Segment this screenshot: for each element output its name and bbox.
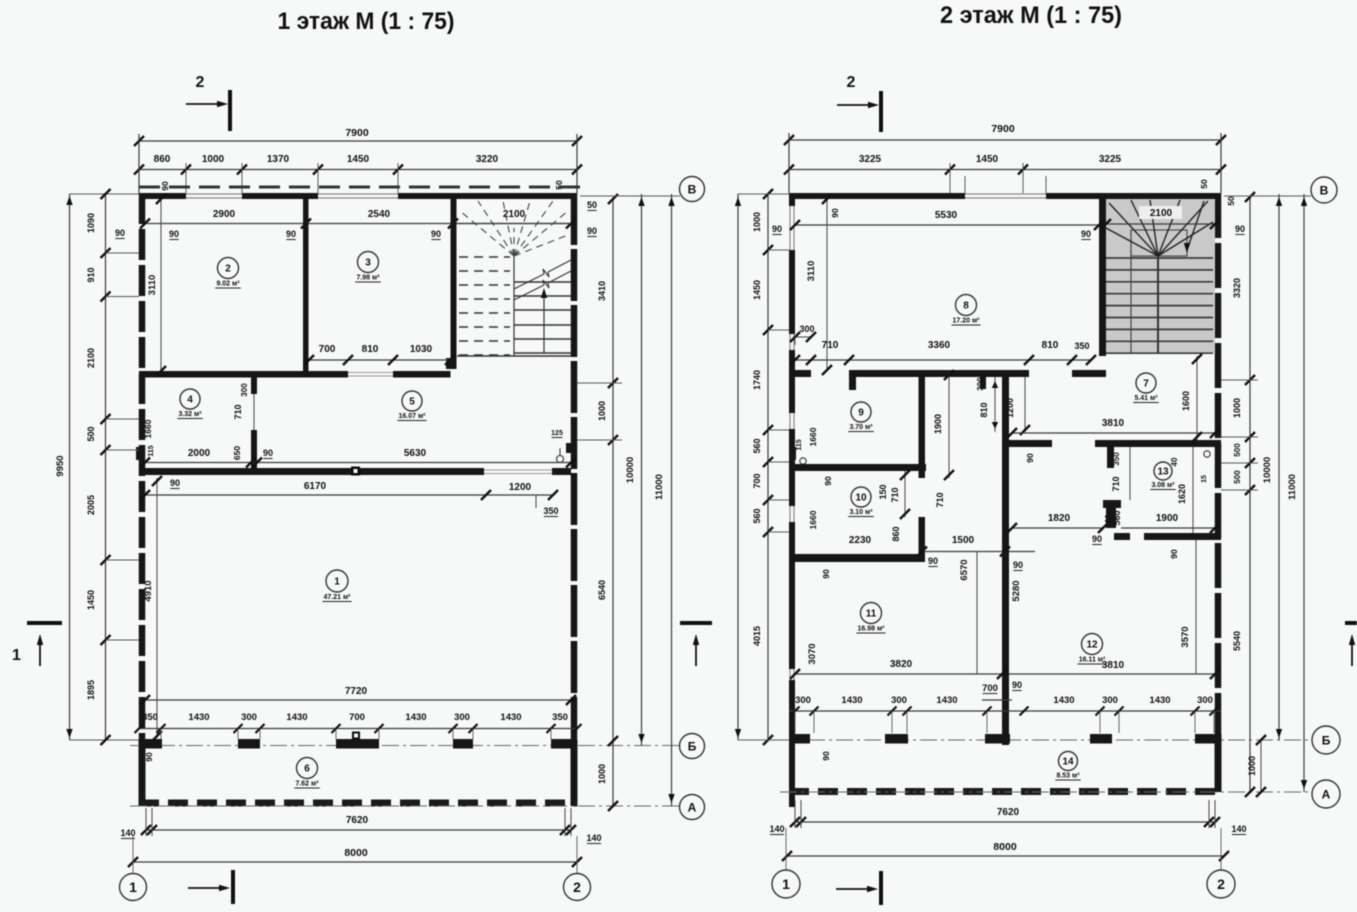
svg-text:710: 710 <box>890 487 900 502</box>
svg-text:3570: 3570 <box>1180 626 1191 647</box>
svg-text:5540: 5540 <box>1232 631 1242 651</box>
bottom door dim row <box>139 728 577 730</box>
dim 5530 room8 <box>795 224 1099 226</box>
svg-text:50: 50 <box>587 200 597 210</box>
svg-text:810: 810 <box>362 344 379 355</box>
svg-text:11000: 11000 <box>1287 474 1298 500</box>
dim 8000 bottom right plan <box>787 855 1224 857</box>
svg-text:300: 300 <box>240 383 249 397</box>
svg-text:1430: 1430 <box>1053 695 1074 706</box>
svg-text:1000: 1000 <box>202 154 225 165</box>
svg-text:1740: 1740 <box>752 370 762 390</box>
svg-text:810: 810 <box>1042 340 1059 351</box>
left overall dim 9950 <box>69 194 71 740</box>
left dim chain 1090 910 2100 500 2005 1450 1895 <box>105 194 107 740</box>
svg-text:500: 500 <box>1233 443 1242 457</box>
svg-text:115: 115 <box>796 439 803 450</box>
right dim 11000 <box>671 194 673 806</box>
room 3 label <box>358 252 379 273</box>
svg-text:3.08 м²: 3.08 м² <box>1151 482 1175 489</box>
svg-text:90: 90 <box>1025 453 1035 463</box>
svg-text:1820: 1820 <box>1048 513 1071 524</box>
room 5 label <box>402 391 422 411</box>
svg-text:7.98 м²: 7.98 м² <box>356 275 380 282</box>
svg-text:300: 300 <box>976 377 985 391</box>
dim 1820 and 1900 <box>1012 527 1103 529</box>
pier marker square <box>352 732 360 740</box>
dim 7720 <box>145 699 571 701</box>
svg-text:Б: Б <box>688 739 697 753</box>
stairwell gray fill <box>1106 199 1215 353</box>
svg-text:6170: 6170 <box>304 481 327 492</box>
extension lines top dims <box>138 134 140 193</box>
svg-text:90: 90 <box>928 556 938 566</box>
svg-text:1030: 1030 <box>410 344 433 355</box>
svg-text:Б: Б <box>1322 733 1331 747</box>
svg-text:16.98 м²: 16.98 м² <box>858 626 886 633</box>
svg-text:6570: 6570 <box>959 559 970 580</box>
svg-text:90: 90 <box>431 229 441 239</box>
svg-text:1450: 1450 <box>86 590 96 610</box>
svg-text:10000: 10000 <box>1262 457 1273 483</box>
svg-text:3810: 3810 <box>1102 660 1125 671</box>
svg-text:700: 700 <box>752 473 762 488</box>
svg-text:700: 700 <box>349 712 365 723</box>
svg-text:1: 1 <box>782 876 790 892</box>
svg-text:860: 860 <box>891 526 901 541</box>
axis circle B right plan <box>1312 726 1340 754</box>
svg-text:В: В <box>1320 183 1329 197</box>
svg-text:1000: 1000 <box>1247 756 1257 776</box>
dim 7620 bottom right plan <box>795 821 1215 823</box>
wall between room2 and room3 <box>303 199 309 378</box>
svg-text:2: 2 <box>573 879 581 895</box>
room 9 label <box>851 402 871 422</box>
svg-text:5280: 5280 <box>1011 580 1022 601</box>
room8 bottom wall segments <box>795 370 811 377</box>
svg-text:4910: 4910 <box>143 580 154 601</box>
svg-text:125: 125 <box>551 430 563 437</box>
svg-text:90: 90 <box>115 228 125 238</box>
svg-text:3110: 3110 <box>806 261 817 282</box>
svg-text:3.32 м²: 3.32 м² <box>178 411 202 418</box>
svg-text:9.02 м²: 9.02 м² <box>216 281 240 288</box>
dim 3810 room12 <box>1009 673 1215 675</box>
dim 1600 rotated room7 <box>1196 356 1198 440</box>
svg-text:500: 500 <box>86 426 96 441</box>
svg-text:2100: 2100 <box>1150 208 1173 219</box>
svg-text:140: 140 <box>586 833 601 843</box>
axis circle A left plan <box>680 795 705 820</box>
room10 right wall <box>919 471 926 478</box>
svg-text:50: 50 <box>1199 179 1209 189</box>
main interior wall horizontal <box>139 468 484 475</box>
dim 700 810 1030 door room3 <box>309 359 450 361</box>
svg-text:2900: 2900 <box>213 209 236 220</box>
room9 right wall <box>919 377 926 464</box>
svg-text:16.07 м²: 16.07 м² <box>399 413 427 420</box>
svg-text:300: 300 <box>799 324 814 334</box>
room 6 veranda label <box>297 758 318 779</box>
svg-text:300: 300 <box>891 695 907 706</box>
svg-text:1430: 1430 <box>841 695 862 706</box>
svg-text:1200: 1200 <box>509 482 532 493</box>
room 14 label <box>1059 752 1078 771</box>
axis circle V left plan <box>680 177 705 202</box>
dim 3110 room2 left <box>160 199 162 371</box>
room 13 walls <box>1107 447 1114 468</box>
svg-text:115: 115 <box>148 445 155 456</box>
svg-text:710: 710 <box>1111 476 1121 491</box>
svg-text:7720: 7720 <box>345 686 368 697</box>
svg-text:710: 710 <box>822 340 839 351</box>
svg-text:7: 7 <box>1143 379 1149 390</box>
svg-text:47.21 м²: 47.21 м² <box>324 594 352 601</box>
dim 3110 room8 left <box>826 199 828 370</box>
svg-text:90: 90 <box>1235 224 1245 234</box>
svg-text:1000: 1000 <box>1232 398 1242 418</box>
svg-text:860: 860 <box>154 154 171 165</box>
svg-text:3320: 3320 <box>1232 278 1242 298</box>
interior dim line 2900 2540 2100 <box>145 223 571 225</box>
svg-text:1430: 1430 <box>405 712 426 723</box>
section mark 2 bottom right plan <box>836 888 872 890</box>
svg-text:90: 90 <box>830 208 840 218</box>
wall between room3 and stairwell <box>451 199 457 362</box>
svg-text:1600: 1600 <box>1181 391 1191 411</box>
svg-text:560: 560 <box>752 438 762 453</box>
svg-text:17.20 м²: 17.20 м² <box>953 318 981 325</box>
windows in left wall <box>789 206 791 250</box>
dim 2100 stairs right plan <box>1139 206 1182 219</box>
dim 3570 rotated room12 <box>1195 540 1197 674</box>
outer right wall <box>571 193 578 740</box>
svg-text:А: А <box>1322 787 1331 801</box>
svg-text:В: В <box>688 182 697 196</box>
svg-text:8: 8 <box>963 301 969 312</box>
svg-text:40: 40 <box>1170 457 1179 466</box>
svg-text:13: 13 <box>1157 467 1169 478</box>
svg-text:650: 650 <box>232 446 242 460</box>
svg-text:3225: 3225 <box>1099 154 1122 165</box>
window in top wall 1000 <box>186 193 242 195</box>
room 10 label <box>851 487 871 507</box>
svg-text:9: 9 <box>858 408 864 419</box>
svg-text:10: 10 <box>855 493 867 504</box>
section mark 1 right of left plan <box>680 621 712 625</box>
svg-text:1900: 1900 <box>933 414 943 434</box>
svg-text:7.62 м²: 7.62 м² <box>295 781 319 788</box>
svg-text:5: 5 <box>409 397 415 408</box>
svg-text:1000: 1000 <box>597 764 607 784</box>
svg-text:1500: 1500 <box>952 535 975 546</box>
right chain right plan 3320 1000 500 500 5540 <box>1249 197 1251 792</box>
dim 810 rotated <box>994 377 996 432</box>
stair steps right plan <box>1106 257 1213 259</box>
stair break lines <box>514 274 544 289</box>
svg-text:2005: 2005 <box>86 495 96 515</box>
stair inner vertical line <box>1130 230 1132 353</box>
svg-text:1450: 1450 <box>752 280 762 300</box>
svg-text:1430: 1430 <box>500 712 521 723</box>
svg-text:350: 350 <box>543 506 558 516</box>
svg-text:11000: 11000 <box>654 474 665 500</box>
svg-text:90: 90 <box>263 448 273 458</box>
svg-text:1450: 1450 <box>347 154 370 165</box>
wall pier between 1820 1900 <box>1106 508 1116 528</box>
svg-text:3220: 3220 <box>476 154 499 165</box>
svg-text:3225: 3225 <box>859 154 882 165</box>
svg-text:2000: 2000 <box>188 448 211 459</box>
svg-text:1900: 1900 <box>1156 513 1179 524</box>
svg-text:300: 300 <box>1102 695 1118 706</box>
svg-text:5.41 м²: 5.41 м² <box>1134 395 1158 402</box>
room 4 label <box>180 389 200 409</box>
svg-text:1430: 1430 <box>1149 695 1170 706</box>
room 11 label <box>861 603 882 624</box>
svg-text:7900: 7900 <box>991 123 1015 135</box>
svg-text:90: 90 <box>144 752 154 762</box>
svg-text:3.10 м²: 3.10 м² <box>849 509 873 516</box>
wall stubs corridor <box>980 377 986 389</box>
svg-text:6: 6 <box>304 764 310 775</box>
svg-text:7900: 7900 <box>345 127 369 139</box>
dim row 710 3360 810 350 room8 bottom <box>795 359 1091 361</box>
axis circle B left plan <box>680 734 705 759</box>
svg-text:350: 350 <box>142 712 158 723</box>
svg-text:9950: 9950 <box>55 455 66 476</box>
stair down arrow <box>1188 201 1204 247</box>
svg-text:1000: 1000 <box>752 212 762 232</box>
svg-text:4: 4 <box>187 395 193 406</box>
right chain 3410 1000 6540 1000 <box>612 199 614 806</box>
dim 1620 rotated room13 <box>1192 447 1194 533</box>
dim 300 bracket left <box>795 336 811 338</box>
outer top wall right plan <box>789 193 965 199</box>
svg-text:300: 300 <box>1197 695 1213 706</box>
svg-text:300: 300 <box>454 712 470 723</box>
room 8 label <box>956 295 977 316</box>
svg-text:1: 1 <box>12 647 21 664</box>
svg-text:2230: 2230 <box>849 535 872 546</box>
svg-text:3820: 3820 <box>890 659 913 670</box>
svg-text:2540: 2540 <box>368 209 391 220</box>
axis circle A right plan <box>1312 780 1340 808</box>
dim 4910 rotated <box>156 478 158 738</box>
dim row 3225 1450 3225 <box>789 169 1221 171</box>
stairwell left wall <box>1099 199 1106 356</box>
left chain right plan 1000 1450 1740 560 700 560 4015 <box>737 194 739 740</box>
dim 2100 stairs <box>457 223 571 225</box>
room10 bottom wall <box>789 554 922 562</box>
svg-text:1090: 1090 <box>86 213 96 233</box>
svg-text:90: 90 <box>1012 680 1022 690</box>
door sill lines main wall <box>484 469 552 471</box>
wall stub between room4 room5 upper <box>251 378 257 395</box>
dim 7900 top <box>139 140 577 142</box>
svg-text:90: 90 <box>821 751 831 761</box>
door pier left wall right plan <box>789 447 796 460</box>
svg-text:7620: 7620 <box>346 815 369 826</box>
axis A dash-dot right plan <box>780 791 1312 793</box>
svg-text:1: 1 <box>334 577 340 588</box>
svg-text:6540: 6540 <box>597 580 607 600</box>
bottom wall piers <box>139 739 162 749</box>
svg-text:3.70 м²: 3.70 м² <box>849 424 873 431</box>
bottom piers right plan <box>789 734 810 744</box>
door sill lines room3 <box>348 372 393 374</box>
svg-text:2: 2 <box>196 74 205 91</box>
svg-text:910: 910 <box>86 267 96 282</box>
svg-text:1370: 1370 <box>267 154 290 165</box>
svg-text:810: 810 <box>979 402 989 417</box>
svg-text:15: 15 <box>1201 475 1208 483</box>
dim 10000 right plan <box>1278 194 1280 740</box>
dim 1200 rotated <box>1024 377 1026 432</box>
svg-text:300: 300 <box>241 712 257 723</box>
svg-text:10000: 10000 <box>625 457 636 483</box>
svg-text:8.53 м²: 8.53 м² <box>1056 773 1080 780</box>
svg-text:1660: 1660 <box>143 419 153 438</box>
svg-text:1450: 1450 <box>976 154 999 165</box>
room 12 label <box>1082 634 1103 655</box>
svg-text:3110: 3110 <box>147 275 158 296</box>
svg-text:3070: 3070 <box>807 643 818 664</box>
svg-text:1430: 1430 <box>286 712 307 723</box>
wall stub below room8 left <box>849 370 856 390</box>
svg-text:8000: 8000 <box>993 841 1017 853</box>
svg-text:700: 700 <box>982 683 998 694</box>
svg-text:90: 90 <box>1169 549 1179 559</box>
bottom door dim row right plan <box>789 710 1221 712</box>
svg-text:2100: 2100 <box>86 348 96 368</box>
dim 11000 right plan <box>1303 194 1305 792</box>
axis circle 1 right plan <box>785 828 787 870</box>
room 1 label <box>326 570 348 592</box>
room 2 label <box>218 258 239 279</box>
outer left wall right plan with windows <box>789 193 795 206</box>
room 7 label <box>1136 373 1156 393</box>
stair up arrow <box>543 292 545 353</box>
svg-text:90: 90 <box>160 181 170 191</box>
dim 700 90 bottom center <box>982 699 1012 701</box>
svg-text:11: 11 <box>866 609 877 620</box>
room 13 label <box>1154 462 1172 480</box>
svg-text:4015: 4015 <box>752 626 762 646</box>
svg-text:5530: 5530 <box>935 210 958 221</box>
veranda dashed bottom wall right plan <box>789 788 1221 795</box>
svg-text:1620: 1620 <box>1177 484 1187 504</box>
outer top wall with windows <box>139 193 186 199</box>
svg-text:500: 500 <box>1233 470 1242 484</box>
dim row 860 1000 1370 1450 3220 <box>139 169 577 171</box>
svg-text:710: 710 <box>935 492 945 507</box>
svg-text:90: 90 <box>286 229 296 239</box>
svg-text:90: 90 <box>1013 560 1023 570</box>
dim 710 rotated room13 <box>1129 447 1131 500</box>
svg-text:14: 14 <box>1062 757 1074 768</box>
dim 6570 rotated corridor <box>976 552 978 675</box>
dim 8000 bottom <box>133 861 577 863</box>
svg-text:1430: 1430 <box>188 712 209 723</box>
axis circle 2 right plan <box>1220 828 1222 870</box>
svg-text:1: 1 <box>129 879 137 895</box>
svg-text:1000: 1000 <box>597 401 607 421</box>
svg-text:1660: 1660 <box>808 427 818 446</box>
svg-text:А: А <box>688 800 697 814</box>
axis B dash-dot right plan <box>780 739 1312 741</box>
veranda dashed bottom wall <box>139 800 577 807</box>
dim 3820 room11 <box>795 673 1002 675</box>
bottom wall of rooms 2-3 with door <box>139 371 348 378</box>
flue square on main wall <box>351 467 360 476</box>
axis circle V right plan <box>1311 177 1337 203</box>
svg-text:50: 50 <box>1226 196 1236 206</box>
outer right wall right plan <box>1215 193 1222 740</box>
svg-text:1895: 1895 <box>86 680 96 700</box>
window top wall 1450 <box>965 193 1046 195</box>
svg-text:350: 350 <box>1074 341 1089 351</box>
room7 top wall segments <box>1009 440 1052 447</box>
svg-text:90: 90 <box>821 569 831 579</box>
svg-text:2 этаж М (1 : 75): 2 этаж М (1 : 75) <box>940 2 1122 29</box>
svg-text:2: 2 <box>225 264 231 275</box>
svg-text:560: 560 <box>1104 514 1113 528</box>
svg-text:140: 140 <box>769 824 784 834</box>
dim 3810 room7 <box>1012 432 1215 434</box>
axis circle 2 left plan <box>576 836 578 873</box>
svg-text:90: 90 <box>170 478 180 488</box>
window in top wall 1450 <box>318 193 398 195</box>
svg-text:5630: 5630 <box>404 448 427 459</box>
dim 1000 B to A right plan <box>1260 740 1262 792</box>
outer left wall dashed <box>139 193 146 740</box>
overhang dashed line above top wall <box>139 186 580 189</box>
section mark 1 right edge <box>1345 621 1357 625</box>
svg-text:90: 90 <box>772 224 782 234</box>
svg-text:90: 90 <box>823 476 833 486</box>
stair fan lines solid <box>1106 228 1158 256</box>
svg-text:560: 560 <box>752 508 762 523</box>
svg-text:90: 90 <box>587 226 597 236</box>
svg-text:1430: 1430 <box>936 695 957 706</box>
svg-text:710: 710 <box>233 404 243 419</box>
central wall between rooms 11 and 12 <box>1002 377 1009 745</box>
dim 7900 top right plan <box>789 139 1221 141</box>
svg-text:150: 150 <box>878 484 888 499</box>
svg-text:3: 3 <box>365 258 371 269</box>
stairwell left plan <box>513 256 515 356</box>
room9-10 divider wall <box>795 464 926 471</box>
svg-text:3410: 3410 <box>597 281 607 301</box>
door circle left wall right plan <box>800 458 806 464</box>
wall stub between room4 room5 lower <box>251 430 257 474</box>
door pier left wall <box>136 447 144 460</box>
svg-text:3360: 3360 <box>928 340 951 351</box>
svg-text:1 этаж М (1 : 75): 1 этаж М (1 : 75) <box>278 8 455 35</box>
svg-text:2: 2 <box>847 74 856 91</box>
axis A dash-dot line <box>130 805 680 807</box>
dim row 2000 650 90 5630 <box>145 462 571 464</box>
section mark 2 bottom-left plan <box>188 887 224 889</box>
svg-text:350: 350 <box>1112 452 1121 466</box>
svg-text:8000: 8000 <box>344 847 368 859</box>
dim 7620 bottom <box>146 829 571 831</box>
svg-text:7620: 7620 <box>997 807 1020 818</box>
dim 1900 rotated corridor <box>948 372 950 478</box>
svg-text:350: 350 <box>552 712 568 723</box>
axis B dash-dot line <box>130 745 680 747</box>
